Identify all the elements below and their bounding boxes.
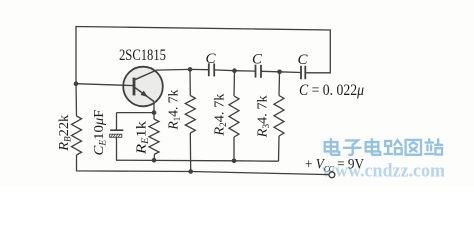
svg-text:CE10μF: CE10μF: [92, 109, 108, 155]
svg-text:2SC1815: 2SC1815: [119, 47, 166, 64]
svg-text:R34. 7k: R34. 7k: [256, 95, 272, 138]
svg-text:RE1k: RE1k: [135, 121, 151, 155]
svg-text:C = 0. 022μ: C = 0. 022μ: [299, 82, 364, 99]
svg-text:C: C: [297, 52, 308, 68]
svg-text:C: C: [252, 51, 263, 67]
svg-text:R14. 7k: R14. 7k: [167, 90, 183, 131]
svg-text:+ VCC = 9V: + VCC = 9V: [305, 157, 364, 174]
svg-text:R24. 7k: R24. 7k: [212, 94, 228, 137]
svg-text:RB22k: RB22k: [57, 115, 73, 152]
svg-text:C: C: [205, 51, 216, 67]
